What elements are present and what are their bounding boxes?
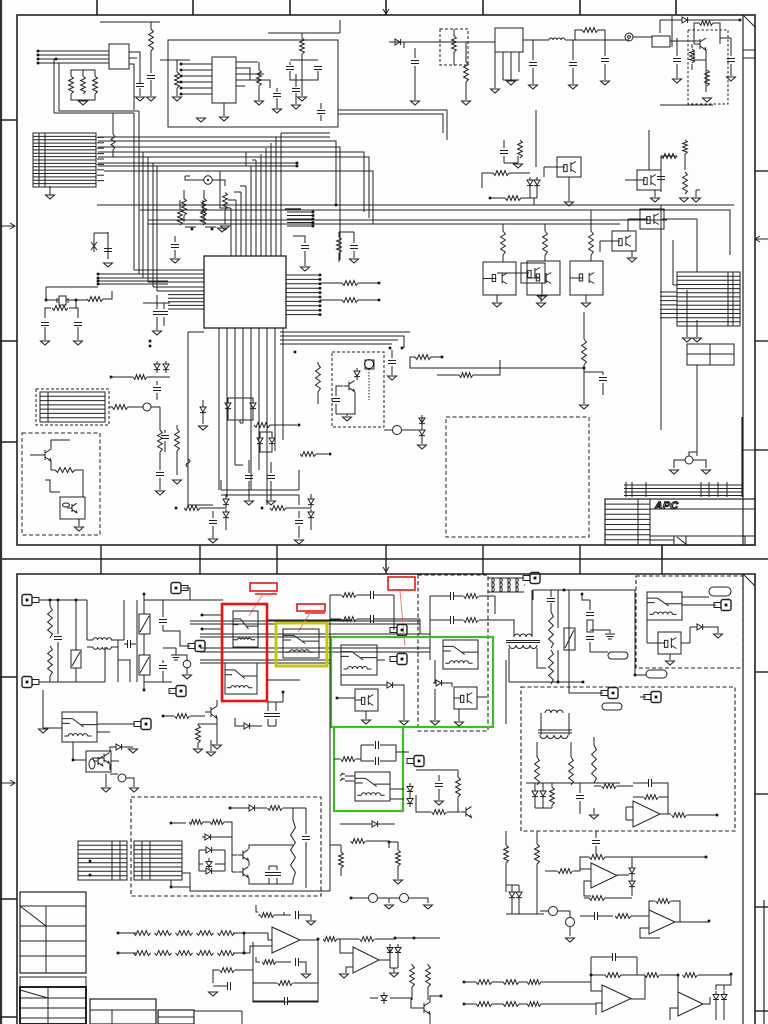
junction [582, 681, 585, 684]
wire [143, 594, 145, 600]
resistor [342, 298, 358, 303]
junction [180, 87, 183, 90]
sheet 1 corner diagonal [743, 15, 755, 27]
junction [97, 273, 100, 276]
junction [317, 938, 320, 941]
IC U3 [495, 28, 523, 52]
resistor [535, 844, 540, 864]
junction [180, 93, 183, 96]
ground [104, 263, 113, 267]
wire [162, 660, 164, 663]
wire [330, 594, 394, 596]
resistor [396, 850, 401, 866]
junction [191, 228, 194, 231]
wire [545, 870, 580, 872]
wire [670, 974, 731, 1020]
dashed box [446, 417, 589, 537]
resistor [175, 714, 190, 719]
wire [595, 831, 597, 838]
resistor [254, 423, 270, 428]
resistor [456, 777, 461, 797]
table diagonal [20, 906, 46, 926]
wire [337, 697, 355, 699]
green highlight box [334, 727, 403, 811]
connector J2 [36, 389, 109, 425]
table [90, 999, 156, 1024]
wire [378, 897, 399, 899]
ground [462, 101, 471, 105]
wire [232, 834, 293, 884]
connector plug [195, 641, 205, 652]
capacitor [302, 837, 310, 840]
red callout [388, 577, 415, 590]
wire [129, 52, 140, 110]
wire [591, 957, 637, 975]
diode [202, 834, 214, 840]
transistor box [521, 263, 545, 283]
diode pair [527, 177, 533, 189]
capacitor [301, 246, 309, 249]
ground [683, 338, 692, 342]
resistor [81, 76, 86, 94]
table rows [20, 997, 86, 999]
wire [30, 440, 70, 470]
wire [536, 110, 569, 201]
wire [163, 303, 165, 309]
wire [404, 996, 441, 1024]
capacitor [317, 111, 325, 114]
wire [660, 170, 662, 174]
wire [210, 740, 212, 751]
diode [392, 39, 404, 45]
op-amp U9 [678, 992, 703, 1016]
oval [63, 503, 70, 507]
wire [730, 38, 732, 56]
varistor RV4 [564, 628, 575, 650]
wire [532, 40, 534, 60]
junction [117, 932, 120, 935]
ground [245, 501, 254, 505]
ground [41, 341, 50, 345]
wire [580, 915, 610, 917]
wire bus [37, 51, 109, 63]
wire [150, 22, 152, 29]
wire bus [98, 274, 168, 284]
wire [351, 897, 368, 899]
mosfet sym [381, 992, 387, 1004]
ground [350, 259, 359, 263]
transistor Q [461, 807, 472, 818]
wire bus [660, 291, 677, 293]
capacitor [147, 76, 155, 79]
component box [60, 497, 85, 519]
junction [97, 280, 100, 283]
wire [123, 600, 125, 640]
wire [594, 785, 633, 787]
wire [580, 869, 629, 896]
ground [130, 788, 139, 792]
diode pair [509, 889, 515, 901]
junction [319, 274, 322, 277]
ground [394, 880, 403, 884]
wire [290, 60, 318, 96]
wire [691, 44, 693, 48]
wire [465, 42, 467, 62]
red callout underline [305, 612, 325, 614]
wire loop [168, 40, 338, 127]
resistor [316, 364, 321, 392]
wire [258, 914, 291, 916]
junction [162, 715, 165, 718]
wire [118, 933, 268, 953]
ground [388, 376, 397, 380]
wire [185, 176, 225, 186]
wire [569, 682, 603, 693]
wire [464, 1003, 560, 1005]
resistor [589, 896, 605, 901]
border tick [0, 780, 15, 786]
varistor RV3 [139, 655, 150, 675]
ground [566, 938, 575, 942]
wire [631, 875, 633, 878]
border tick [755, 236, 768, 242]
wire [649, 901, 680, 922]
wire [366, 841, 389, 848]
ground [390, 973, 399, 977]
resistor [201, 209, 206, 225]
resistor [493, 171, 509, 176]
wire [171, 880, 190, 887]
wire [100, 21, 160, 23]
wire rail [200, 660, 330, 663]
wire bus [221, 470, 299, 505]
wire [612, 857, 632, 896]
resistor [549, 612, 554, 648]
junction [110, 376, 113, 379]
net label pill [602, 703, 622, 710]
resistor [202, 199, 207, 216]
capacitor [592, 841, 600, 844]
wire [584, 897, 632, 899]
capacitor [350, 246, 358, 249]
transformer T2 secondary [509, 645, 537, 649]
border tick [0, 223, 15, 229]
circle node [549, 907, 558, 916]
wire [490, 197, 530, 199]
ground [74, 341, 83, 345]
oval [89, 759, 95, 769]
capacitor [41, 323, 49, 326]
wire [358, 283, 378, 300]
resistor [182, 199, 187, 216]
ground [538, 296, 547, 300]
wire [682, 597, 716, 605]
ticks [625, 482, 627, 497]
sheet 1 border frame [17, 15, 755, 545]
resistor [505, 196, 521, 201]
wire [156, 295, 158, 309]
resistor [278, 981, 293, 986]
wire [694, 23, 720, 44]
ground [273, 109, 282, 113]
ground [590, 815, 599, 819]
wire [497, 295, 586, 302]
junction [261, 507, 264, 510]
ground [340, 974, 349, 978]
sheet 2 border frame [17, 574, 755, 1024]
wire [604, 40, 606, 56]
junction [75, 599, 78, 602]
ground [255, 101, 264, 105]
resistor [410, 965, 415, 987]
wire bus [188, 328, 283, 505]
wire [268, 33, 340, 38]
wire [170, 690, 171, 692]
yellow highlight box [276, 623, 327, 666]
title cells [673, 536, 675, 545]
ground [727, 77, 736, 81]
ground [147, 97, 156, 101]
resistor [705, 70, 710, 86]
varistor RV2 [139, 614, 150, 634]
wire [390, 789, 410, 799]
wire [163, 648, 176, 655]
red callout [297, 604, 325, 611]
wire rail [506, 913, 540, 915]
transistor Q [205, 706, 217, 718]
resistor [476, 1002, 492, 1007]
wire [660, 20, 740, 33]
wire [235, 718, 262, 726]
circle node [400, 894, 409, 903]
resistor [175, 72, 180, 88]
connector J4 [78, 841, 127, 880]
wire [530, 189, 537, 198]
wire [610, 915, 613, 917]
wire rail [526, 782, 620, 784]
varistor RV1 [71, 650, 81, 668]
wire rail [98, 141, 369, 260]
capacitor [599, 378, 607, 381]
wire [537, 742, 571, 757]
wire bus [220, 171, 246, 208]
op-amp U5 [633, 801, 660, 827]
wire [671, 15, 673, 47]
transistor Q2 [39, 449, 51, 461]
wire [390, 956, 398, 972]
wire [73, 742, 86, 760]
wire [389, 42, 420, 48]
ground [156, 491, 165, 495]
wire [572, 40, 574, 60]
ground [173, 480, 182, 484]
resistor [111, 134, 115, 150]
ground [435, 801, 444, 805]
border tick [192, 0, 194, 15]
transistor box [612, 231, 636, 251]
wire [540, 913, 544, 915]
ground [102, 788, 111, 792]
mosfet diode [395, 944, 401, 956]
capacitor [159, 620, 167, 623]
wire [144, 599, 190, 601]
border tick [96, 0, 98, 15]
op-amp U11 [272, 927, 300, 953]
wire [150, 80, 152, 96]
border tick [755, 1010, 768, 1012]
transformer T2 primary [514, 634, 532, 637]
wire [159, 478, 161, 490]
wire [631, 916, 660, 938]
wire [453, 29, 455, 36]
junction [634, 674, 637, 677]
transistor Q4 [344, 381, 355, 392]
wire rail [98, 136, 330, 138]
junction [489, 197, 492, 200]
wire bus [231, 143, 271, 256]
table [687, 344, 734, 365]
wire [384, 417, 422, 430]
component [587, 620, 593, 632]
connector plug [171, 583, 181, 594]
junction [180, 69, 183, 72]
wire [143, 302, 170, 304]
resistor [270, 506, 286, 511]
junction [563, 589, 566, 592]
red leader line [249, 594, 263, 616]
diode [308, 509, 314, 521]
junction [89, 860, 92, 863]
wire [164, 430, 166, 433]
net label pill [646, 670, 667, 678]
wire [339, 232, 354, 262]
wire [92, 747, 133, 770]
wire [416, 769, 458, 771]
resistor [550, 787, 555, 805]
ground [493, 303, 502, 307]
wire [684, 139, 686, 141]
wire [584, 372, 603, 404]
resistor [323, 937, 337, 942]
wire [410, 357, 424, 368]
wire [305, 808, 307, 834]
title line [650, 508, 755, 510]
wire [582, 594, 590, 652]
wire [42, 690, 44, 728]
ground [207, 752, 216, 756]
wire [560, 981, 591, 983]
resistor [300, 38, 305, 54]
junction [730, 973, 733, 976]
table [20, 977, 86, 987]
resistor [602, 784, 617, 789]
ground [343, 417, 352, 421]
junction [170, 886, 173, 889]
wire frame [253, 939, 318, 1002]
ground [46, 195, 55, 199]
wire [45, 291, 112, 318]
ground [537, 303, 546, 307]
dashed box [521, 687, 735, 831]
node [625, 33, 633, 41]
wire [494, 596, 496, 614]
resistor [589, 231, 594, 255]
feedback wire [256, 957, 260, 962]
capacitor [296, 911, 299, 919]
sheet 2 corner diagonal [743, 574, 755, 586]
capacitor [273, 94, 281, 97]
resistor [656, 899, 671, 904]
svg-text:APC: APC [653, 500, 680, 512]
wire [580, 857, 612, 871]
wire [151, 407, 160, 430]
resistor [55, 468, 75, 473]
ground [431, 721, 440, 725]
wire [260, 432, 272, 452]
node [207, 179, 209, 181]
title table [605, 499, 755, 545]
red leader line [298, 613, 310, 632]
wire [389, 898, 428, 903]
squiggle [186, 459, 190, 467]
sheet 2 bottom right extra line [763, 900, 765, 1024]
ground [183, 675, 192, 679]
resistor [459, 373, 473, 378]
ground [693, 338, 702, 342]
wire [228, 398, 253, 423]
wire [205, 700, 217, 724]
resistor [644, 795, 659, 800]
resistor [558, 869, 573, 874]
capacitor [451, 616, 454, 624]
capacitor [104, 249, 112, 252]
ground [680, 198, 689, 202]
wire [676, 38, 678, 56]
ground [171, 259, 180, 263]
wire [174, 236, 176, 242]
resistor [257, 70, 262, 86]
ground [153, 331, 162, 335]
wire [661, 545, 663, 559]
capacitor [128, 640, 131, 648]
capacitor [171, 245, 179, 248]
connector plug P2 [22, 677, 32, 688]
wire bus [280, 332, 410, 348]
wire [593, 737, 595, 745]
dotted wire [368, 369, 370, 400]
capacitor [159, 666, 167, 669]
inter-page separation line [0, 558, 768, 560]
diode [200, 404, 206, 416]
wire [316, 453, 328, 455]
wire [505, 831, 507, 845]
wire [672, 240, 674, 285]
diode pair [225, 400, 231, 412]
resistor chain [134, 951, 151, 956]
wire [75, 649, 77, 651]
junction [708, 920, 711, 923]
ground [491, 89, 500, 93]
wire [661, 154, 685, 170]
junction [75, 299, 78, 302]
wire [334, 758, 361, 760]
capacitor [54, 637, 62, 640]
junction [243, 932, 246, 935]
resistor [339, 852, 344, 868]
border tick [661, 545, 663, 574]
wire [86, 637, 88, 640]
wire [690, 627, 712, 643]
